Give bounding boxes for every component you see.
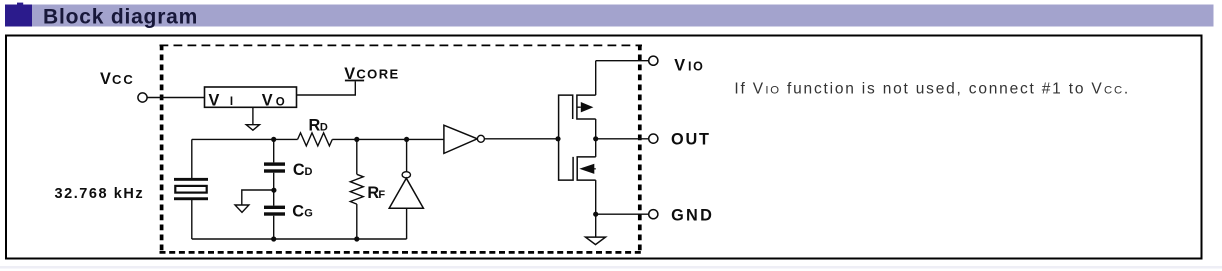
wire source down: [595, 180, 597, 237]
buffer U3 bubble: [477, 135, 484, 142]
label VCC: [100, 70, 135, 88]
svg-text:C: C: [292, 202, 304, 220]
terminal VCC pad: [138, 93, 147, 102]
label CG: [292, 202, 313, 220]
wire crystal left branch: [191, 139, 193, 239]
inverter U2 bubble: [402, 172, 410, 178]
svg-text:D: D: [320, 122, 328, 134]
svg-text:I: I: [230, 96, 233, 108]
terminal GND pad: [649, 210, 658, 219]
svg-text:CC: CC: [112, 72, 135, 87]
svg-text:32.768 kHz: 32.768 kHz: [55, 186, 145, 202]
svg-text:CORE: CORE: [356, 67, 399, 82]
svg-text:C: C: [293, 161, 305, 179]
IC dashed box bottom edge: [160, 251, 643, 254]
regulator U1 box: [205, 87, 297, 107]
wire buffer to gates: [484, 138, 558, 140]
node GND: [593, 212, 598, 217]
inverter U2 triangle: [389, 178, 423, 208]
wire OUT: [596, 138, 649, 140]
svg-text:G: G: [304, 208, 313, 220]
transistor Q1 PMOS gate: [559, 95, 573, 139]
node inverter output: [404, 137, 409, 142]
ground middle: [235, 205, 249, 212]
terminal VIO pad: [649, 56, 658, 65]
VCORE terminal tick: [345, 80, 364, 82]
node between CD and CG: [271, 188, 276, 193]
svg-text:OUT: OUT: [671, 130, 711, 148]
wire drain mid: [595, 119, 597, 157]
crystal X1 32.768 kHz: [174, 178, 208, 200]
wire inverter output up: [406, 139, 408, 171]
wire regulator to ground: [252, 107, 254, 124]
node RF bottom: [354, 236, 359, 241]
wire RF lower: [356, 204, 358, 239]
wire VCC input: [147, 97, 204, 99]
transistor Q2 NMOS arrow: [579, 164, 595, 174]
node CG bottom: [271, 236, 276, 241]
regulator pin VO label: [262, 91, 285, 109]
IC dashed box top edge: [160, 44, 643, 46]
header bar: [5, 5, 1214, 27]
bottom page rule: [0, 266, 1222, 269]
node CD top: [271, 137, 276, 142]
svg-text:Block diagram: Block diagram: [43, 6, 198, 29]
label RD: [309, 116, 328, 134]
wire RF upper: [356, 139, 358, 174]
node gate input: [555, 136, 560, 141]
wire top rail right: [332, 138, 444, 140]
ground under regulator: [246, 125, 259, 131]
svg-text:V: V: [344, 65, 355, 83]
wire CD branch upper: [273, 139, 275, 162]
resistor RD: [298, 133, 333, 146]
svg-text:If VIO function is not used, c: If VIO function is not used, connect #1 …: [734, 81, 1130, 98]
terminal OUT pad: [649, 134, 658, 143]
resistor RF: [350, 174, 363, 204]
svg-text:R: R: [309, 116, 321, 134]
header square bullet: [5, 3, 32, 27]
transistor Q1 PMOS channel: [577, 95, 596, 119]
svg-text:GND: GND: [671, 207, 714, 225]
svg-text:V: V: [209, 91, 220, 109]
svg-text:V: V: [100, 70, 111, 88]
label VCORE: [344, 65, 399, 83]
wire CD to CG: [273, 173, 275, 206]
svg-text:F: F: [378, 189, 385, 201]
ground output stage: [586, 237, 606, 245]
wire top rail left: [192, 138, 298, 140]
wire to middle ground: [242, 190, 274, 205]
svg-text:IO: IO: [688, 59, 704, 73]
IC dashed box left edge: [160, 45, 164, 254]
wire inverter input down: [406, 208, 408, 239]
node RF top: [354, 137, 359, 142]
capacitor CD: [264, 162, 285, 172]
label VIO: [674, 56, 704, 74]
transistor Q2 NMOS channel: [577, 157, 596, 180]
wire VIO drain up: [595, 61, 597, 95]
wire VO to VCORE: [297, 81, 356, 95]
label CD: [293, 161, 313, 179]
IC dashed box right edge: [638, 45, 642, 254]
wire VIO: [596, 60, 649, 62]
buffer U3 triangle: [444, 125, 477, 153]
capacitor CG: [264, 206, 285, 216]
transistor Q1 PMOS arrow: [577, 102, 594, 112]
wire bottom rail: [192, 238, 407, 240]
wire CG to bottom rail: [273, 216, 275, 239]
svg-text:V: V: [262, 91, 273, 109]
transistor Q2 NMOS gate: [559, 139, 574, 180]
label RF: [367, 184, 385, 202]
regulator pin VI label: [209, 91, 234, 109]
svg-text:O: O: [276, 96, 285, 108]
node OUT: [593, 136, 598, 141]
svg-text:D: D: [305, 166, 313, 178]
svg-text:V: V: [674, 56, 685, 74]
wire GND: [596, 213, 649, 215]
